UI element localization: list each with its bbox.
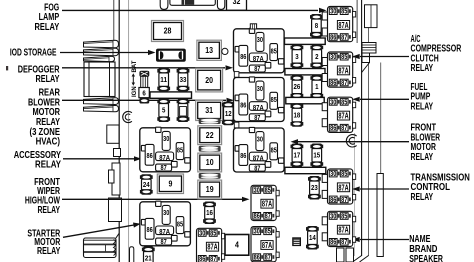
svg-text:30: 30 (257, 136, 263, 143)
bus bar left (150, 92, 192, 98)
svg-text:RELAY: RELAY (411, 192, 434, 203)
wall step (114, 149, 121, 157)
bus bar 2 (285, 69, 325, 75)
svg-text:SPEAKER: SPEAKER (409, 254, 443, 262)
svg-text:86: 86 (147, 153, 153, 160)
relay socket R1 (fog lamp) (322, 7, 356, 42)
svg-text:RELAY: RELAY (411, 152, 434, 163)
leader: front wiper relay (62, 197, 250, 202)
svg-text:3: 3 (295, 52, 298, 61)
bus bar 3 (286, 97, 324, 103)
svg-text:RELAY: RELAY (411, 63, 434, 74)
relay socket R7 (251, 227, 279, 262)
label: name brand speaker relay (409, 234, 443, 262)
svg-text:6: 6 (142, 89, 145, 98)
fuse 5 (157, 99, 170, 123)
relay socket R5 (speaker) (322, 211, 356, 246)
svg-text:30: 30 (257, 37, 263, 44)
svg-text:30: 30 (254, 186, 260, 194)
svg-text:1: 1 (315, 82, 318, 91)
svg-text:30: 30 (330, 8, 336, 16)
wall bracket 1 (107, 125, 119, 143)
svg-text:31: 31 (205, 106, 213, 115)
leader: starter motor relay (63, 223, 141, 238)
bottom slot (130, 247, 134, 262)
fuse 14 (306, 226, 319, 250)
label: defogger relay (18, 64, 60, 85)
relay socket K3 (defogger) (234, 28, 285, 73)
cartridge fuse A (199, 118, 221, 124)
svg-text:86: 86 (240, 153, 246, 160)
svg-text:5: 5 (162, 106, 165, 115)
relay socket R2 (a/c clutch) (322, 52, 356, 87)
relay socket K4 (rear blower) (234, 77, 285, 122)
label: starter motor relay (27, 229, 60, 257)
svg-text:87: 87 (254, 66, 260, 73)
fuse 17 (291, 144, 304, 168)
svg-text:87A: 87A (253, 155, 264, 162)
fuse 1 (310, 75, 323, 99)
svg-text:87A: 87A (262, 200, 272, 209)
svg-text:30: 30 (330, 212, 336, 220)
svg-text:87A: 87A (159, 155, 170, 162)
svg-text:85: 85 (177, 221, 183, 228)
fuse 3 (291, 45, 304, 69)
svg-text:4: 4 (235, 241, 239, 250)
housing fin (84, 48, 119, 56)
wall bracket 2 (109, 198, 122, 222)
leader: front blower motor relay (291, 139, 410, 144)
IGN-BAT marking (132, 60, 139, 97)
svg-text:87A: 87A (159, 229, 170, 236)
svg-text:30: 30 (163, 210, 169, 217)
cartridge fuse C (199, 173, 221, 179)
leader: rear blower motor relay (62, 98, 234, 103)
socket bridge tabs (234, 72, 239, 128)
svg-text:RELAY: RELAY (35, 160, 61, 171)
svg-text:20: 20 (205, 76, 213, 85)
svg-text:86: 86 (330, 196, 336, 204)
svg-text:87: 87 (341, 238, 347, 246)
svg-text:87: 87 (254, 115, 260, 122)
svg-text:IGN: IGN (132, 86, 138, 97)
svg-text:86: 86 (254, 212, 260, 220)
top connector U2 (217, 0, 224, 9)
fuse 6 holder (139, 71, 149, 104)
bus bar 4 (285, 167, 326, 173)
svg-text:30: 30 (330, 53, 336, 61)
svg-text:86: 86 (330, 124, 336, 132)
housing fin (84, 56, 115, 61)
svg-text:85: 85 (177, 147, 183, 154)
leader: fog lamp relay (62, 8, 327, 13)
svg-text:14: 14 (309, 233, 317, 242)
housing fin (84, 105, 119, 111)
socket keying tab (250, 24, 256, 29)
svg-text:8: 8 (315, 21, 318, 30)
relay socket R8 (197, 228, 225, 262)
svg-text:16: 16 (206, 208, 213, 217)
fuse 18 (291, 103, 304, 127)
fuse 2 (310, 45, 323, 69)
svg-text:85: 85 (341, 8, 347, 16)
relay socket R3 (fuel pump) (322, 97, 356, 132)
svg-text:85: 85 (271, 48, 277, 55)
svg-text:15: 15 (313, 151, 320, 160)
leader: transmission control relay (352, 186, 409, 191)
svg-text:22: 22 (206, 131, 214, 140)
svg-text:87: 87 (341, 79, 347, 87)
fuse 20 box (196, 68, 223, 92)
label: rear blower motor relay (28, 88, 61, 148)
svg-text:32: 32 (233, 0, 241, 6)
right wall tab top (365, 5, 378, 28)
fuse 8 (310, 14, 323, 38)
svg-text:86: 86 (199, 255, 205, 262)
svg-text:RELAY: RELAY (35, 22, 60, 33)
wall tab side (109, 170, 115, 183)
svg-text:HVAC): HVAC) (36, 137, 60, 148)
leader: a/c compressor clutch relay (352, 54, 409, 59)
svg-text:18: 18 (294, 111, 301, 120)
screw boss (123, 111, 132, 122)
ribbed housing block (84, 233, 120, 257)
svg-text:BAT: BAT (132, 60, 138, 72)
svg-text:30: 30 (199, 229, 205, 237)
leader: defogger relay (62, 65, 233, 70)
svg-text:IOD STORAGE: IOD STORAGE (10, 48, 57, 59)
panel right wall (354, 0, 368, 256)
svg-text:87: 87 (161, 239, 167, 246)
label: transmission control relay (411, 172, 470, 203)
wall tab tall (112, 163, 120, 195)
fuse 24 (140, 174, 153, 195)
fuse 10 box (198, 153, 222, 172)
right wall clip (362, 43, 376, 73)
bus bar 1 (285, 38, 326, 44)
leader: IOD storage (60, 50, 156, 55)
svg-text:85: 85 (265, 186, 271, 194)
svg-text:85: 85 (271, 97, 277, 104)
relay socket K1 (accessory) (140, 127, 191, 172)
svg-text:87A: 87A (262, 241, 272, 250)
vent hole (222, 48, 228, 54)
svg-text:19: 19 (206, 185, 214, 194)
label: front wiper high/low relay (25, 177, 61, 216)
label: accessory relay (14, 150, 62, 171)
top connector U1 (160, 0, 168, 9)
svg-text:86: 86 (240, 54, 246, 61)
svg-text:87A: 87A (207, 243, 217, 252)
svg-text:30: 30 (257, 86, 263, 93)
svg-text:85: 85 (271, 148, 277, 155)
svg-text:86: 86 (330, 238, 336, 246)
svg-text:85: 85 (341, 212, 347, 220)
svg-text:87: 87 (265, 212, 271, 220)
svg-text:87: 87 (254, 165, 260, 172)
fuse 13 box (197, 40, 222, 60)
fuse 16 (203, 202, 216, 225)
svg-text:86: 86 (240, 103, 246, 110)
page edge mark (6, 66, 8, 70)
bottom-right corner cut (353, 256, 369, 262)
fuse 11 (157, 68, 170, 92)
label: IOD storage (10, 48, 57, 59)
svg-text:2: 2 (315, 52, 318, 61)
svg-text:RELAY: RELAY (37, 246, 61, 257)
fuse 21 (142, 247, 155, 262)
svg-text:85: 85 (341, 98, 347, 106)
svg-text:86: 86 (330, 79, 336, 87)
fuse holder window (180, 107, 187, 117)
fuse 4 box (225, 235, 249, 256)
svg-text:87A: 87A (253, 105, 264, 112)
svg-text:21: 21 (145, 254, 152, 262)
fuse 33 (177, 68, 190, 92)
svg-text:30: 30 (163, 136, 169, 143)
fuse 9 box (157, 174, 183, 194)
leader: name brand speaker relay (352, 237, 409, 242)
svg-text:17: 17 (294, 151, 301, 160)
svg-text:87: 87 (341, 33, 347, 41)
fuse 28 box (152, 21, 184, 42)
label: front blower motor relay (411, 123, 441, 163)
relay socket K5 (front blower) (234, 127, 285, 172)
leader: accessory relay (63, 156, 142, 161)
svg-text:RELAY: RELAY (38, 205, 61, 216)
relay socket K2 (starter motor) (140, 201, 191, 246)
svg-text:87A: 87A (338, 66, 348, 75)
svg-text:87A: 87A (338, 112, 348, 121)
svg-text:RELAY: RELAY (411, 102, 434, 113)
label: fuel pump relay (411, 82, 434, 113)
svg-text:87A: 87A (338, 21, 348, 30)
fuse 23 (308, 176, 321, 200)
fuse holder (177, 99, 190, 123)
fuse 12 (222, 102, 235, 126)
label: fog lamp relay (35, 2, 60, 33)
mounting bolt (346, 135, 356, 147)
svg-text:23: 23 (311, 183, 318, 192)
svg-text:30: 30 (330, 98, 336, 106)
svg-text:24: 24 (143, 180, 151, 189)
top module (170, 0, 215, 5)
svg-text:87A: 87A (253, 56, 264, 63)
fuse 19 box (198, 180, 222, 199)
svg-text:87: 87 (210, 255, 216, 262)
fuse 22 box (198, 126, 222, 145)
fuse 31 box (196, 100, 223, 120)
fuse 26 (291, 75, 304, 99)
svg-text:26: 26 (294, 82, 301, 91)
svg-text:85: 85 (265, 228, 271, 236)
svg-text:86: 86 (254, 254, 260, 262)
leader: fuel pump relay (352, 97, 409, 102)
svg-text:87A: 87A (338, 183, 348, 192)
IOD storage fuse holder (156, 49, 186, 62)
svg-text:28: 28 (164, 27, 172, 36)
svg-text:9: 9 (169, 179, 173, 188)
svg-text:13: 13 (205, 46, 213, 55)
svg-text:87: 87 (265, 254, 271, 262)
housing connector frame (84, 62, 115, 97)
svg-text:33: 33 (180, 75, 187, 84)
svg-text:86: 86 (147, 227, 153, 234)
svg-text:87: 87 (161, 165, 167, 172)
svg-text:11: 11 (160, 75, 167, 84)
fuse 32 box (227, 0, 247, 10)
panel left wall (114, 0, 129, 262)
svg-text:87: 87 (341, 196, 347, 204)
right wall rail (377, 63, 383, 257)
cartridge fuse B (199, 146, 221, 152)
relay socket R6 (front wiper) (251, 185, 279, 220)
svg-text:87A: 87A (338, 226, 348, 235)
svg-text:RELAY: RELAY (36, 74, 60, 85)
connector stub (293, 238, 301, 246)
bottom connector (337, 248, 354, 262)
fuse 15 (310, 144, 323, 168)
svg-text:30: 30 (254, 228, 260, 236)
svg-text:86: 86 (330, 33, 336, 41)
svg-text:85: 85 (341, 170, 347, 178)
svg-text:87: 87 (341, 124, 347, 132)
svg-text:12: 12 (225, 109, 232, 118)
housing fin (84, 40, 119, 48)
svg-text:85: 85 (210, 229, 216, 237)
relay socket R4 (transmission) (322, 169, 356, 204)
housing fin (84, 98, 119, 105)
svg-text:30: 30 (330, 170, 336, 178)
label: a/c compressor clutch relay (411, 34, 462, 74)
svg-text:85: 85 (341, 53, 347, 61)
svg-text:10: 10 (206, 158, 214, 167)
